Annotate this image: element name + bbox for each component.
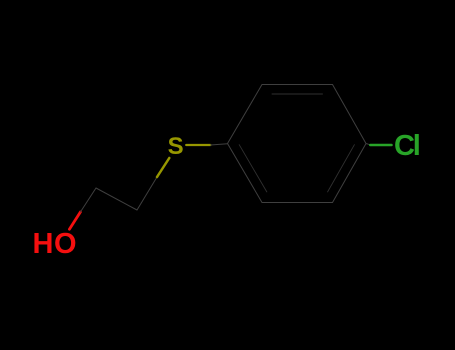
svg-text:S: S — [168, 133, 184, 160]
inner double bond lines — [272, 93, 323, 95]
bond ring-Cl chlorine half — [370, 144, 391, 147]
bond S-ring carbon half — [210, 144, 227, 145]
bond C2-S sulfur half — [157, 158, 169, 177]
bond ring-Cl carbon half — [366, 144, 370, 145]
bond O-C1 red half — [69, 212, 80, 229]
benzene ring — [228, 85, 367, 203]
bond C2-S carbon half — [137, 177, 157, 210]
bond C1-C2 — [96, 188, 137, 210]
svg-text:HO: HO — [33, 228, 78, 260]
bond O-C1 carbon half — [80, 188, 96, 212]
bond S-ring sulfur half — [186, 144, 210, 146]
svg-text:Cl: Cl — [394, 130, 419, 162]
